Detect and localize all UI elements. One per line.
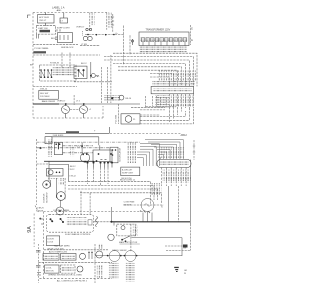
rotated figure label 9A — [27, 226, 33, 233]
pilot assembly box — [121, 114, 140, 124]
stub ticks — [193, 146, 195, 152]
pilot lamp PL3 — [125, 116, 132, 123]
label row top — [54, 244, 70, 247]
svg-text:LABEL 1 A: LABEL 1 A — [52, 6, 65, 10]
surface switch S4 — [100, 162, 106, 168]
bus wire L1 heavy — [33, 103, 59, 105]
wire riser (dashed) — [110, 55, 112, 103]
wire return — [132, 237, 183, 239]
contact dots — [55, 143, 60, 145]
svg-text:DOOR LK: DOOR LK — [44, 193, 46, 203]
svg-text:AB12: AB12 — [181, 133, 188, 137]
selector switch S1 dots — [40, 69, 52, 78]
svg-text:P2 BK-W: P2 BK-W — [50, 63, 60, 65]
wire through windings — [95, 255, 182, 257]
svg-text:BK-16: BK-16 — [126, 98, 132, 100]
probe switch arm — [122, 236, 130, 240]
svg-text:120 TALK: 120 TALK — [40, 95, 50, 98]
svg-text:MAIN TOP MOTOR: MAIN TOP MOTOR — [119, 241, 138, 244]
section 3 outer left dashed border — [33, 214, 35, 248]
terminal block TB1 (rounded) — [157, 160, 191, 168]
svg-text:BAKE 2800W: BAKE 2800W — [42, 100, 56, 103]
border label — [53, 209, 71, 212]
border tick marks — [37, 273, 41, 276]
svg-text:WIRING SHOWN DOOR CLOSED: WIRING SHOWN DOOR CLOSED — [48, 275, 82, 277]
wire (dashed stub) — [37, 163, 50, 165]
section 3 left dashed border — [43, 212, 45, 279]
wire label row — [120, 179, 136, 181]
wire label on bus — [53, 135, 65, 137]
rotated label — [118, 147, 121, 161]
svg-text:9A: 9A — [27, 226, 33, 233]
svg-text:BROIL 3400W: BROIL 3400W — [112, 250, 127, 252]
wire tick label — [51, 38, 56, 40]
wire labels above connector — [158, 70, 196, 81]
wire (dashed) — [80, 193, 161, 203]
svg-text:OVEN LT: OVEN LT — [57, 101, 66, 103]
wire (wrap) — [140, 108, 193, 124]
svg-text:N W-BK: N W-BK — [36, 211, 44, 213]
border end label — [181, 133, 188, 137]
wire — [45, 23, 47, 26]
relay contact arms — [51, 219, 64, 222]
tick below bus — [113, 223, 115, 226]
section 1 bottom dashed border — [33, 117, 103, 119]
wire corner — [166, 250, 190, 252]
svg-text:CONV FAN: CONV FAN — [124, 201, 135, 204]
igniter cluster label — [104, 95, 120, 101]
right solid wire — [190, 160, 192, 225]
long riser to N bus — [168, 186, 170, 222]
latch switch contacts — [112, 149, 117, 156]
bus wire sec2 top — [45, 132, 109, 134]
wire label — [61, 47, 74, 49]
heavy bus wire N — [111, 221, 190, 223]
wire riser — [90, 62, 92, 79]
infinite switch contact bar — [57, 143, 59, 150]
relay K1 box — [38, 15, 55, 23]
wire (dashed drop) — [64, 178, 66, 200]
wire (dash-dot long) — [37, 141, 141, 143]
wire (dashed) — [150, 77, 169, 86]
junction dot — [65, 103, 67, 105]
oven light switch box — [58, 33, 73, 43]
label row — [112, 250, 127, 252]
note text row 1 — [48, 275, 82, 277]
motor lead wires to bus — [143, 212, 152, 222]
igniter label right — [126, 98, 132, 100]
wire (dashed) — [68, 182, 151, 205]
surface switch contact box — [93, 150, 112, 162]
winding caption — [119, 241, 138, 244]
junction dot — [110, 221, 112, 223]
small label — [184, 248, 187, 250]
fan motor label — [46, 267, 54, 272]
wire — [129, 35, 131, 55]
relay K3 label — [62, 255, 75, 259]
wire (dashed) — [101, 67, 103, 103]
bake relay left ticks — [74, 69, 76, 76]
wire W2 labels — [108, 13, 112, 28]
long riser (dashed) — [178, 186, 180, 222]
wire label row — [34, 47, 49, 50]
wire (wrap) — [140, 111, 185, 117]
igniter junction dot — [111, 97, 113, 99]
section 3 bottom dashed border — [40, 277, 113, 279]
section 3 top dashed border — [44, 211, 145, 213]
surface switch S5 — [107, 162, 113, 168]
svg-text:MOTOR: MOTOR — [46, 270, 54, 272]
wire (dashed) — [118, 70, 177, 86]
wire labels below TB1 — [162, 170, 190, 183]
wire label small — [81, 63, 87, 65]
bus riser — [108, 127, 110, 133]
wire — [57, 29, 60, 31]
wire gauge note text block — [155, 95, 169, 108]
wire tick row — [37, 35, 39, 39]
dark wire label — [33, 51, 46, 53]
pilot label — [133, 119, 136, 121]
surface element HE1 — [80, 153, 89, 162]
motor label — [124, 201, 135, 207]
wire corner (dashed) — [81, 191, 90, 215]
wire (dashed) — [113, 53, 197, 86]
junction blob — [39, 218, 41, 220]
svg-text:LOCK: LOCK — [48, 242, 54, 244]
ground symbol mark — [174, 267, 179, 272]
door lock motor DL1 — [43, 181, 51, 189]
wire (dashed drop) — [130, 224, 132, 252]
transformer T1 box — [139, 32, 189, 46]
oven lamp B1 — [62, 104, 70, 118]
svg-text:2 R-12: 2 R-12 — [68, 169, 75, 171]
wire (dashed) — [33, 44, 78, 46]
section 1 top dashed border — [33, 12, 109, 14]
igniter lamp — [119, 95, 124, 100]
winding M2b labels — [125, 263, 134, 282]
wire riser — [110, 207, 112, 222]
relay contacts K2 — [50, 218, 65, 223]
selector switch S1 contacts — [41, 70, 52, 77]
wire (dashed) — [74, 81, 112, 83]
wire — [55, 178, 57, 198]
oven light switch contacts — [60, 35, 68, 40]
wire riser to HE1 — [81, 142, 83, 153]
wire (dashed) — [80, 45, 100, 47]
motor lead marks — [144, 211, 151, 214]
motor terminal F — [140, 209, 142, 213]
wire label under line — [40, 89, 48, 91]
svg-text:TRANSFORMER 120V: TRANSFORMER 120V — [146, 29, 171, 32]
svg-text:P1 SEC PANEL: P1 SEC PANEL — [34, 47, 49, 50]
svg-text:MOTOR W: MOTOR W — [47, 193, 49, 203]
timer label — [44, 255, 58, 259]
motor inner mark — [145, 204, 151, 207]
margin label — [30, 64, 33, 66]
svg-text:1 BK-12: 1 BK-12 — [68, 166, 76, 168]
thermal limiter box (dashed) — [36, 26, 55, 34]
terminal E1 — [191, 28, 193, 31]
door switch contacts (circles) — [83, 36, 92, 40]
svg-text:-AB0-: -AB0- — [56, 9, 62, 12]
svg-text:SURF UNIT: SURF UNIT — [122, 173, 134, 175]
bus nest wires (mid) — [137, 144, 159, 166]
surface light label — [57, 28, 71, 30]
wire stubs — [88, 252, 92, 259]
control board label rows — [67, 217, 87, 219]
right riser labels — [165, 176, 191, 183]
bulb terminals — [56, 172, 61, 174]
main motor winding M2a — [109, 251, 120, 262]
thermostat sensor — [121, 226, 125, 230]
meat probe jack — [108, 234, 114, 240]
control board box (rounded dashed) — [46, 214, 93, 232]
ground label — [184, 270, 188, 275]
label rows under bus — [68, 166, 76, 178]
wire W1 labels — [91, 13, 95, 26]
svg-text:2-BK SURF: 2-BK SURF — [53, 135, 65, 137]
wire label — [50, 63, 60, 65]
capacitor box (dashed) — [61, 265, 76, 273]
dark label band above connector — [153, 81, 196, 86]
thermal limiter label — [38, 28, 49, 30]
wire (wrap) — [146, 106, 177, 108]
svg-text:SURF LIGHT: SURF LIGHT — [57, 28, 71, 30]
svg-text:3 W-12: 3 W-12 — [69, 175, 76, 177]
oven light bulb — [48, 170, 53, 175]
wire (dashed) — [106, 67, 108, 103]
svg-text:X: X — [161, 204, 163, 208]
wire label — [77, 146, 81, 148]
relay box K3 — [61, 254, 77, 261]
svg-text:PL LT BK: PL LT BK — [116, 114, 118, 123]
svg-text:DOOR: DOOR — [48, 239, 55, 241]
wire (dashed riser) — [94, 244, 96, 283]
wire (dashed) — [33, 85, 77, 87]
wire labels below connector — [171, 96, 195, 107]
relay coil L1 — [96, 216, 98, 226]
wire (wrap) — [140, 108, 189, 120]
right edge dashed stub — [193, 140, 195, 160]
terminal N — [36, 266, 41, 268]
wire W2 (dashed vertical) — [106, 13, 108, 30]
HE1 lead dots — [82, 153, 87, 155]
svg-text:ELEC RANGE CONTROL: ELEC RANGE CONTROL — [65, 233, 91, 236]
junction dot — [81, 145, 83, 147]
wire — [131, 106, 165, 108]
wire (dashed) — [68, 185, 154, 200]
lower oven control box — [121, 167, 140, 176]
terminal L1 — [28, 15, 31, 18]
transformer T1 label — [146, 29, 171, 32]
stacked marks left — [98, 244, 102, 251]
wire (dash-dot long) — [37, 147, 111, 149]
svg-text:BK-W: BK-W — [51, 38, 56, 40]
schematic title text — [52, 6, 65, 13]
capacitor label — [62, 267, 74, 272]
transformer T1 pins — [143, 42, 185, 46]
wire drop to motor line — [181, 238, 183, 256]
faint label column — [70, 147, 76, 157]
wire dashes below — [48, 178, 58, 180]
svg-text:W: W — [184, 273, 186, 275]
indicator lamp PL4 — [96, 251, 103, 258]
wire (dashed stub) — [94, 221, 111, 223]
wire (dashed) — [113, 63, 185, 86]
fuse F1 — [131, 39, 133, 45]
buzzer BZ1 — [80, 253, 86, 259]
border corner dashes — [35, 206, 38, 213]
door lock switch label — [48, 239, 55, 244]
timer box — [43, 254, 59, 261]
lamp terminal label — [89, 109, 92, 111]
stacked label — [97, 265, 103, 278]
wire (dashed) — [44, 249, 108, 251]
wire (dash-dot) — [63, 152, 94, 154]
svg-text:LT SW: LT SW — [81, 44, 87, 46]
oven light assembly box — [47, 169, 64, 177]
terminal block lower wires — [161, 168, 186, 187]
wire stub to border — [45, 13, 47, 15]
svg-text:COOL: COOL — [46, 267, 53, 269]
wire (dashed) — [118, 67, 181, 87]
svg-text:BK-W CONV 12: BK-W CONV 12 — [120, 179, 136, 181]
indicator lamp PL2 — [91, 74, 95, 78]
fan motor box — [45, 265, 59, 273]
svg-text:CONTROL PANEL: CONTROL PANEL — [53, 209, 71, 212]
wire W3 (dashed vertical) — [112, 14, 114, 32]
terminal block TB1 label — [160, 162, 189, 166]
svg-text:SEL SW: SEL SW — [40, 93, 49, 95]
stacked wire label — [133, 226, 138, 236]
bake switch S2 — [78, 69, 85, 77]
connector P1 label — [153, 89, 192, 92]
right dashed riser — [189, 224, 191, 251]
wire label — [42, 100, 56, 103]
svg-text:OVEN LT: OVEN LT — [76, 26, 85, 28]
wire through motor (dashed) — [124, 204, 164, 206]
wire (dashed) — [104, 60, 189, 86]
wire riser — [99, 145, 101, 150]
stray mark — [94, 130, 96, 133]
lamp contacts — [86, 28, 92, 30]
contact bars — [100, 159, 106, 161]
contact dots in box — [96, 153, 112, 162]
junction dot — [83, 103, 85, 105]
wire between elements — [60, 200, 62, 207]
terminal L2 — [36, 251, 41, 253]
bake relay box — [74, 66, 87, 78]
junction dot — [90, 75, 92, 77]
pilot lamp PL1 label — [61, 21, 64, 23]
oven selector box — [39, 90, 59, 99]
wire (dashed drop) — [62, 53, 70, 68]
wire label column — [47, 139, 53, 157]
oven selector label — [40, 93, 50, 98]
svg-text:SER BLOCK: SER BLOCK — [61, 47, 74, 49]
bus labels — [160, 147, 185, 158]
sec2 inner bus wire — [51, 136, 99, 138]
coil arcs — [96, 76, 99, 77]
motor terminal X — [161, 204, 163, 208]
transformer T1 pin boxes — [141, 38, 186, 42]
bus nest wires (right) — [145, 140, 183, 160]
wire (dashed drops) — [88, 168, 109, 187]
oven lamp B2 — [80, 104, 88, 118]
DL1 corner wire — [50, 180, 52, 187]
wire label — [81, 44, 87, 46]
connector block small — [45, 137, 52, 144]
wire (dashed) — [104, 57, 193, 87]
bus wire label blob — [66, 131, 79, 133]
section 2 top dashed border right — [110, 133, 182, 135]
wire label — [59, 178, 64, 185]
node label — [115, 33, 118, 35]
caption underline — [120, 243, 140, 245]
section 1 left dashed border — [32, 13, 34, 118]
wire (dashed) — [150, 74, 173, 87]
winding terminal dots — [107, 255, 138, 257]
terminal E2 — [191, 39, 193, 42]
svg-text:ALL CONTROLS OFF NOTE 2: ALL CONTROLS OFF NOTE 2 — [57, 280, 88, 283]
thermal fuse dark label — [40, 30, 51, 33]
section 2 left dashed border — [36, 139, 38, 205]
door lock switch box — [47, 236, 60, 246]
harness stub wires — [146, 96, 167, 107]
lamp caption — [57, 101, 81, 103]
lower oven control label — [122, 169, 134, 175]
wire — [140, 109, 165, 111]
label left of DL1 (rotated) — [44, 193, 49, 203]
winding M2a labels — [109, 263, 119, 279]
junction blob — [39, 147, 41, 149]
svg-text:LIMIT SW: LIMIT SW — [38, 28, 49, 30]
wire ticks — [55, 37, 58, 40]
wire (dashed drop) — [73, 95, 75, 105]
infinite switch box — [54, 142, 62, 154]
wire labels along nest — [151, 183, 162, 195]
right dashed riser — [190, 25, 192, 45]
latch switch box — [110, 147, 118, 163]
bus wire (dashed) — [85, 34, 124, 36]
label below board — [65, 233, 91, 236]
note text row 2 — [57, 280, 88, 283]
wire (dashed) — [38, 262, 112, 264]
thermostat box (dashed) — [117, 224, 136, 236]
svg-text:HOT SUR: HOT SUR — [39, 17, 49, 19]
wire (dashed) — [68, 189, 158, 200]
wire (dashed) — [165, 245, 183, 247]
wire (dashed drop) — [117, 104, 119, 124]
wire label row — [76, 26, 85, 28]
aux lamp PL5 — [77, 266, 83, 272]
svg-text:A CIRCUIT: A CIRCUIT — [122, 169, 133, 172]
wire (dashed) — [33, 54, 100, 56]
junction dots on bus — [84, 161, 94, 163]
timer label row — [49, 251, 68, 254]
transformer T1 pin row — [141, 38, 188, 42]
pilot lamp PL1 — [60, 13, 68, 24]
left neutral riser (dashed) — [37, 244, 39, 283]
wire to transformer — [122, 26, 124, 66]
wire corner — [49, 165, 69, 182]
connector P1 lower pins — [169, 94, 193, 122]
board aux contact box — [88, 220, 92, 225]
wire (dash-dot) — [63, 145, 94, 147]
thermostat TOD box (dashed) — [40, 65, 77, 81]
junction dots on bus — [87, 34, 115, 36]
label row — [48, 248, 64, 250]
